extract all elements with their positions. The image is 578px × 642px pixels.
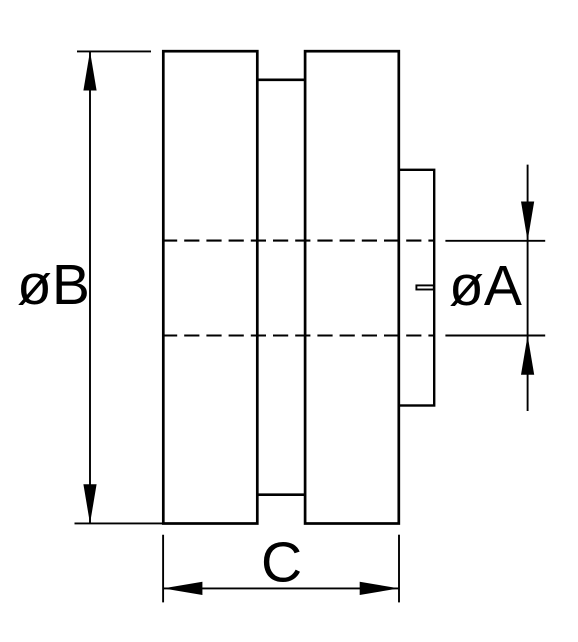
dim A line <box>527 165 529 411</box>
svg-text:øB: øB <box>17 253 90 317</box>
dashed bore line lower <box>162 334 435 336</box>
dim A arrow up <box>521 336 534 375</box>
svg-text:øA: øA <box>449 254 522 318</box>
dim C arrow left <box>163 582 202 595</box>
svg-text:C: C <box>261 531 302 595</box>
dim B line <box>89 52 91 523</box>
dim A extension lower <box>445 335 545 337</box>
dim B arrow up <box>83 51 96 90</box>
hub top edge <box>257 79 305 82</box>
left disc body <box>163 51 257 523</box>
dim C extension right <box>398 535 400 603</box>
dim B arrow down <box>83 484 96 523</box>
dim C arrow right <box>360 582 399 595</box>
dim A arrow down <box>521 202 534 241</box>
dashed bore line upper <box>162 240 435 242</box>
dim B extension top <box>77 50 151 52</box>
keyway slot <box>416 285 433 289</box>
dim C extension left <box>162 535 164 603</box>
dim B extension bottom <box>75 522 169 524</box>
dim A extension upper <box>445 240 545 242</box>
hub bottom edge <box>257 493 305 496</box>
right hub tab <box>399 170 434 406</box>
right disc body <box>305 51 399 523</box>
dim C line <box>164 587 399 589</box>
